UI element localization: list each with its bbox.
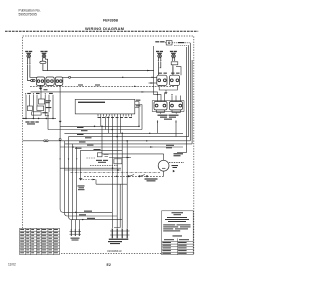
verticals from EOC right stubs xyxy=(139,102,142,130)
small symbol below label xyxy=(173,170,175,173)
motor inner mark xyxy=(162,167,165,169)
switch contacts xyxy=(128,175,130,177)
connector marks RR xyxy=(158,60,162,62)
svg-text:316048413: 316048413 xyxy=(107,249,122,253)
EOC pin labels xyxy=(98,117,133,118)
wire right edge 1 xyxy=(177,47,187,152)
labels above row1 boxes xyxy=(159,73,180,74)
stub above SW5 xyxy=(173,67,181,76)
contact marks xyxy=(104,155,132,158)
vertical wires xyxy=(26,86,53,118)
dashed link from diamond xyxy=(83,179,96,181)
wire RR stems xyxy=(158,58,160,61)
bend wire B xyxy=(64,213,117,216)
relay box xyxy=(97,153,102,157)
labels on bends xyxy=(79,211,95,219)
receptacle RF (circle-X) xyxy=(27,54,31,58)
wire to motor top xyxy=(102,153,164,155)
arrows on bus wires xyxy=(146,70,153,148)
dashed run xyxy=(84,175,164,177)
label below diamond xyxy=(44,89,48,90)
wire right edge 2 xyxy=(188,46,190,137)
arrow on relay wire xyxy=(127,157,130,158)
label oven light left xyxy=(155,41,164,42)
wire LR stems xyxy=(172,58,174,61)
bend wire A xyxy=(60,209,112,212)
wire bus right from switches xyxy=(63,76,157,78)
EOC right stubs xyxy=(135,102,142,108)
limiter bracket LR xyxy=(171,62,178,65)
bus wire 3 xyxy=(64,133,183,212)
label door switch xyxy=(145,178,158,181)
terminal block right base bar xyxy=(109,239,129,240)
wire run B xyxy=(64,169,121,171)
motor stub down xyxy=(163,154,165,160)
diamond connector below SW1 xyxy=(39,88,43,90)
junction node xyxy=(69,76,71,78)
label harness connector xyxy=(78,185,85,190)
connector diamond on trunk xyxy=(59,121,62,123)
label right mid xyxy=(166,145,174,149)
bus wire 5 xyxy=(23,141,191,220)
svg-text:FEF336B: FEF336B xyxy=(103,19,118,23)
wire run A xyxy=(60,167,121,169)
junction dots on bus xyxy=(72,126,140,148)
bus wire 2 xyxy=(48,86,142,210)
lower wire run xyxy=(31,92,158,102)
entry wire 2 with arrow xyxy=(149,82,157,84)
wire LF stems xyxy=(43,58,48,71)
connector pair on wire 5 xyxy=(44,140,46,142)
wire drop to terminal xyxy=(114,184,120,227)
label terminal block left xyxy=(71,238,80,241)
arrow on border wire xyxy=(23,118,26,119)
label RR surface unit xyxy=(156,51,163,54)
dashed lead right of motor xyxy=(169,162,184,164)
cabinet outline (dashed) xyxy=(23,36,194,253)
verticals dropping center to terminals xyxy=(102,126,127,228)
wire right edge 4 xyxy=(191,60,193,144)
component box A xyxy=(39,99,45,104)
svg-text:11/02: 11/02 xyxy=(8,263,16,267)
bus labels xyxy=(75,127,94,149)
switch SW5 body xyxy=(169,75,179,85)
bus wire 6 xyxy=(65,144,192,220)
motor circle xyxy=(158,160,169,171)
EOC bottom pin comb xyxy=(98,114,132,116)
verticals from EOC pins to bus xyxy=(101,116,121,136)
EOC title text xyxy=(78,102,105,103)
wire RF stems xyxy=(28,58,30,64)
pin feed wires xyxy=(71,220,79,229)
junction dots runs xyxy=(112,167,119,170)
label center block xyxy=(96,160,108,163)
svg-text:WIRING DIAGRAM: WIRING DIAGRAM xyxy=(85,26,125,31)
wire link to door switch drop xyxy=(96,180,128,185)
label LF surface unit xyxy=(41,51,48,54)
arrows on trunk bundle xyxy=(59,159,77,161)
switch SW3 body xyxy=(55,77,63,85)
switch SW7 body xyxy=(169,102,182,110)
dash run lower xyxy=(90,164,118,166)
arrows below row2 xyxy=(157,122,177,124)
switch SW6 body xyxy=(154,102,167,110)
dashed wire run xyxy=(30,85,174,87)
label oven selector switch xyxy=(25,121,38,124)
switch SW4 body xyxy=(157,75,167,85)
bus wire 4 xyxy=(69,137,189,217)
feed arrows xyxy=(157,94,173,96)
terminal block right pins xyxy=(112,229,127,239)
wire right edge 3 xyxy=(189,43,191,141)
wire dash lower jog xyxy=(175,44,189,47)
receptacle RR (circle-X) xyxy=(158,54,162,58)
arrows on bends xyxy=(75,212,85,221)
bus wire 1 xyxy=(60,125,139,127)
svg-text:E2: E2 xyxy=(107,263,111,267)
junction dots xyxy=(25,118,54,120)
terminal block left pins xyxy=(71,229,79,236)
wires below row2 to bus xyxy=(158,120,177,136)
label right of box C xyxy=(46,107,52,108)
header separator rule xyxy=(5,30,198,32)
wire feed from lamp down xyxy=(154,46,161,102)
wires below row2 xyxy=(157,110,181,114)
connector ring on trunk xyxy=(59,138,61,140)
arrow connector on bus xyxy=(122,77,125,78)
label RF surface unit xyxy=(25,51,32,54)
bend wire C xyxy=(69,216,123,219)
limiter disc LF xyxy=(40,61,46,64)
label terminal block right xyxy=(108,241,122,244)
oven light box xyxy=(166,41,172,45)
component box right xyxy=(114,159,122,164)
feed wires into row2 xyxy=(165,93,181,102)
label motor right xyxy=(172,165,179,168)
arrow below row1 xyxy=(165,92,168,94)
wire LR down xyxy=(172,65,174,75)
label right of box A xyxy=(46,100,51,103)
harness diamond connector xyxy=(79,178,83,180)
arrow on lower run xyxy=(142,91,145,92)
label surface unit switches xyxy=(158,115,179,120)
row2 rails xyxy=(152,101,184,112)
receptacle LR (circle-X) xyxy=(172,54,176,58)
bus wire 8 xyxy=(81,150,123,178)
tiny labels row xyxy=(27,93,53,94)
wires below row1 xyxy=(159,85,177,91)
component box B xyxy=(27,106,32,111)
dashes left xyxy=(86,157,95,159)
switch SW1 body xyxy=(36,77,44,85)
arrow on link xyxy=(92,179,95,180)
svg-text:5995375095: 5995375095 xyxy=(19,13,38,17)
wire dash to lamp xyxy=(165,42,166,44)
entry arrow xyxy=(152,77,155,78)
arrow on dashed run xyxy=(134,86,137,87)
wire from motor down to door run xyxy=(163,171,165,176)
header: publication number text xyxy=(19,8,41,16)
receptacle LF (circle-X) xyxy=(42,54,46,58)
small boxes lower xyxy=(32,112,41,115)
wire LF down then right xyxy=(43,64,154,71)
EOC box xyxy=(75,99,135,114)
connector arrows row xyxy=(25,93,46,95)
dash-dot run C xyxy=(71,172,161,174)
label on wire xyxy=(94,149,101,150)
wire dash from lamp to right xyxy=(172,42,190,44)
wire RF down xyxy=(28,65,37,81)
wire RR down xyxy=(158,62,160,75)
bus wire 7 xyxy=(60,146,183,148)
component box C xyxy=(37,106,44,111)
wire down from selector xyxy=(47,112,49,130)
label 2-line right xyxy=(174,153,184,156)
label right of lamp xyxy=(178,42,185,43)
switch SW2 body xyxy=(46,77,54,85)
wire horizontal to border xyxy=(23,117,56,119)
label LR surface unit xyxy=(170,51,177,54)
connector marks RF xyxy=(27,63,31,65)
lamp inner mark xyxy=(168,42,170,44)
connector pair xyxy=(31,80,33,82)
